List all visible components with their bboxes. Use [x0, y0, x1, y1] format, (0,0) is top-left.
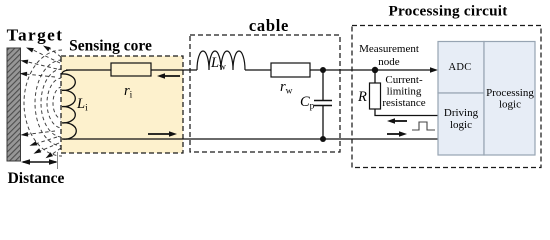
resistor ri	[111, 63, 151, 76]
distance arrow	[23, 161, 56, 163]
wire cable 2	[310, 69, 433, 71]
field ray top 3	[26, 62, 57, 70]
resistor R lead bottom + wire to driving logic	[375, 109, 438, 116]
junction dot cable top	[320, 67, 326, 73]
inductor Li	[62, 70, 76, 139]
svg-text:node: node	[378, 56, 400, 68]
current arrow right (sensing bottom)	[148, 133, 171, 135]
processing logic box	[484, 42, 535, 156]
ADC box	[438, 42, 484, 94]
svg-text:Sensing core: Sensing core	[69, 38, 152, 55]
field ray bottom 2	[35, 137, 57, 144]
svg-text:cable: cable	[249, 16, 289, 35]
svg-text:Current-: Current-	[385, 74, 423, 86]
field ray top 1	[31, 49, 60, 63]
current arrow left (sensing top)	[163, 75, 180, 77]
resistor R	[370, 83, 381, 109]
cable box	[190, 35, 340, 152]
arrow into ADC	[430, 67, 438, 73]
resistor rw	[271, 63, 310, 77]
wire cable 1	[245, 69, 271, 71]
current arrow left (drive)	[393, 120, 407, 122]
field ray top 4	[25, 74, 55, 77]
capacitor Cp plates	[314, 100, 332, 102]
field ray bottom 4	[51, 148, 61, 155]
field line loop 4	[35, 60, 62, 146]
svg-text:Processing: Processing	[486, 87, 534, 99]
pulse symbol	[412, 122, 435, 130]
field ray top 2	[48, 47, 61, 57]
svg-text:Target: Target	[7, 26, 64, 45]
svg-text:logic: logic	[499, 99, 521, 111]
capacitor Cp lead top	[322, 70, 324, 100]
wire sensing top right	[151, 69, 197, 71]
field line loop 3	[41, 69, 62, 137]
svg-text:Distance: Distance	[8, 170, 65, 187]
junction dot cable bottom	[320, 136, 326, 142]
svg-text:Processing circuit: Processing circuit	[388, 3, 507, 20]
target plate	[7, 48, 21, 161]
bottom wire (sensing to driving logic)	[66, 138, 438, 140]
junction dot measurement node	[372, 67, 378, 73]
field line loop 2	[47, 78, 62, 128]
svg-text:resistance: resistance	[382, 97, 425, 109]
field line loop 1 (innermost)	[53, 87, 62, 119]
svg-text:Measurement: Measurement	[359, 43, 419, 55]
resistor R lead top	[374, 70, 376, 83]
wire sensing top left	[66, 69, 111, 71]
capacitor Cp lead bottom	[322, 106, 324, 140]
svg-text:Driving: Driving	[444, 107, 479, 119]
field line loop 5 (outermost)	[24, 50, 62, 156]
svg-text:ADC: ADC	[448, 62, 471, 73]
sensing core box	[61, 56, 183, 153]
current arrow right (drive)	[387, 133, 401, 135]
distance tick	[57, 152, 59, 169]
processing circuit box	[352, 26, 541, 168]
driving logic box	[438, 93, 484, 155]
svg-text:logic: logic	[450, 119, 472, 131]
svg-text:limiting: limiting	[387, 86, 422, 98]
field ray bottom 3	[39, 143, 59, 152]
inductor Lw	[197, 51, 245, 70]
svg-text:R: R	[357, 89, 367, 105]
field ray bottom 1	[26, 131, 55, 135]
